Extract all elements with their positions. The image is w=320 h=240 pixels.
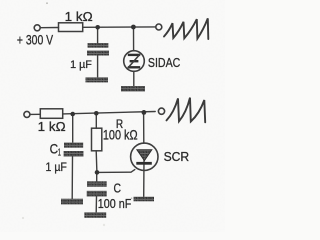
svg-text:100 kΩ: 100 kΩ — [103, 128, 138, 143]
svg-text:1 kΩ: 1 kΩ — [65, 9, 93, 24]
svg-text:1: 1 — [58, 147, 61, 159]
svg-text:SCR: SCR — [164, 150, 190, 164]
svg-text:C: C — [114, 181, 122, 195]
svg-text:+ 300 V: + 300 V — [17, 32, 53, 47]
svg-text:SIDAC: SIDAC — [148, 55, 180, 70]
svg-text:1 µF: 1 µF — [46, 160, 68, 174]
svg-text:1 kΩ: 1 kΩ — [38, 119, 66, 134]
svg-text:1 µF: 1 µF — [70, 59, 92, 71]
svg-text:100 nF: 100 nF — [98, 196, 132, 211]
